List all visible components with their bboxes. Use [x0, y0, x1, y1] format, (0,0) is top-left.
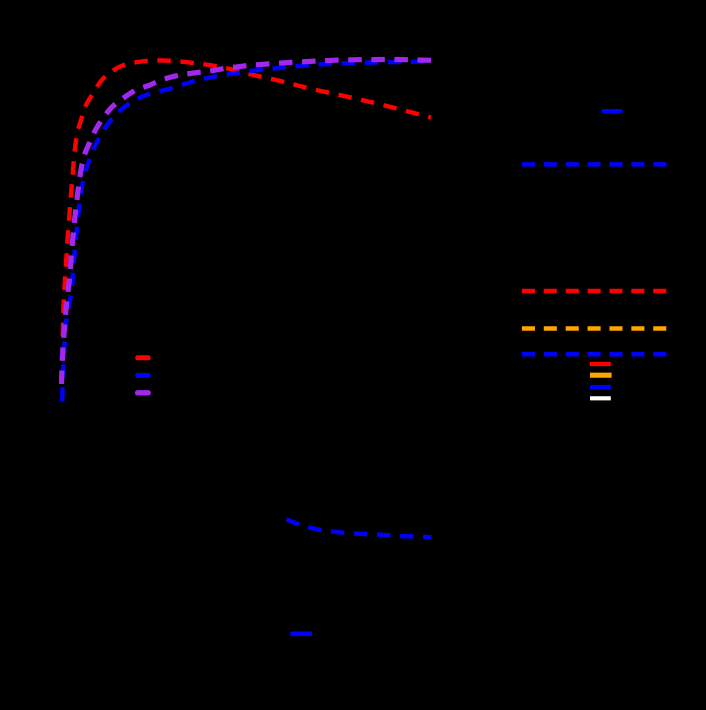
bottom subplot: blue dashed curve: [287, 519, 432, 537]
top-right legend handles: [590, 362, 611, 366]
top-left legend handles: [138, 355, 149, 360]
top-right subplot: [604, 109, 621, 114]
bottom legend handle: [290, 631, 312, 636]
top-left subplot: purple dashed curve: [62, 60, 435, 385]
top-left subplot: blue dashed curve: [62, 61, 434, 401]
top-left subplot: red dashed curve: [63, 60, 431, 336]
